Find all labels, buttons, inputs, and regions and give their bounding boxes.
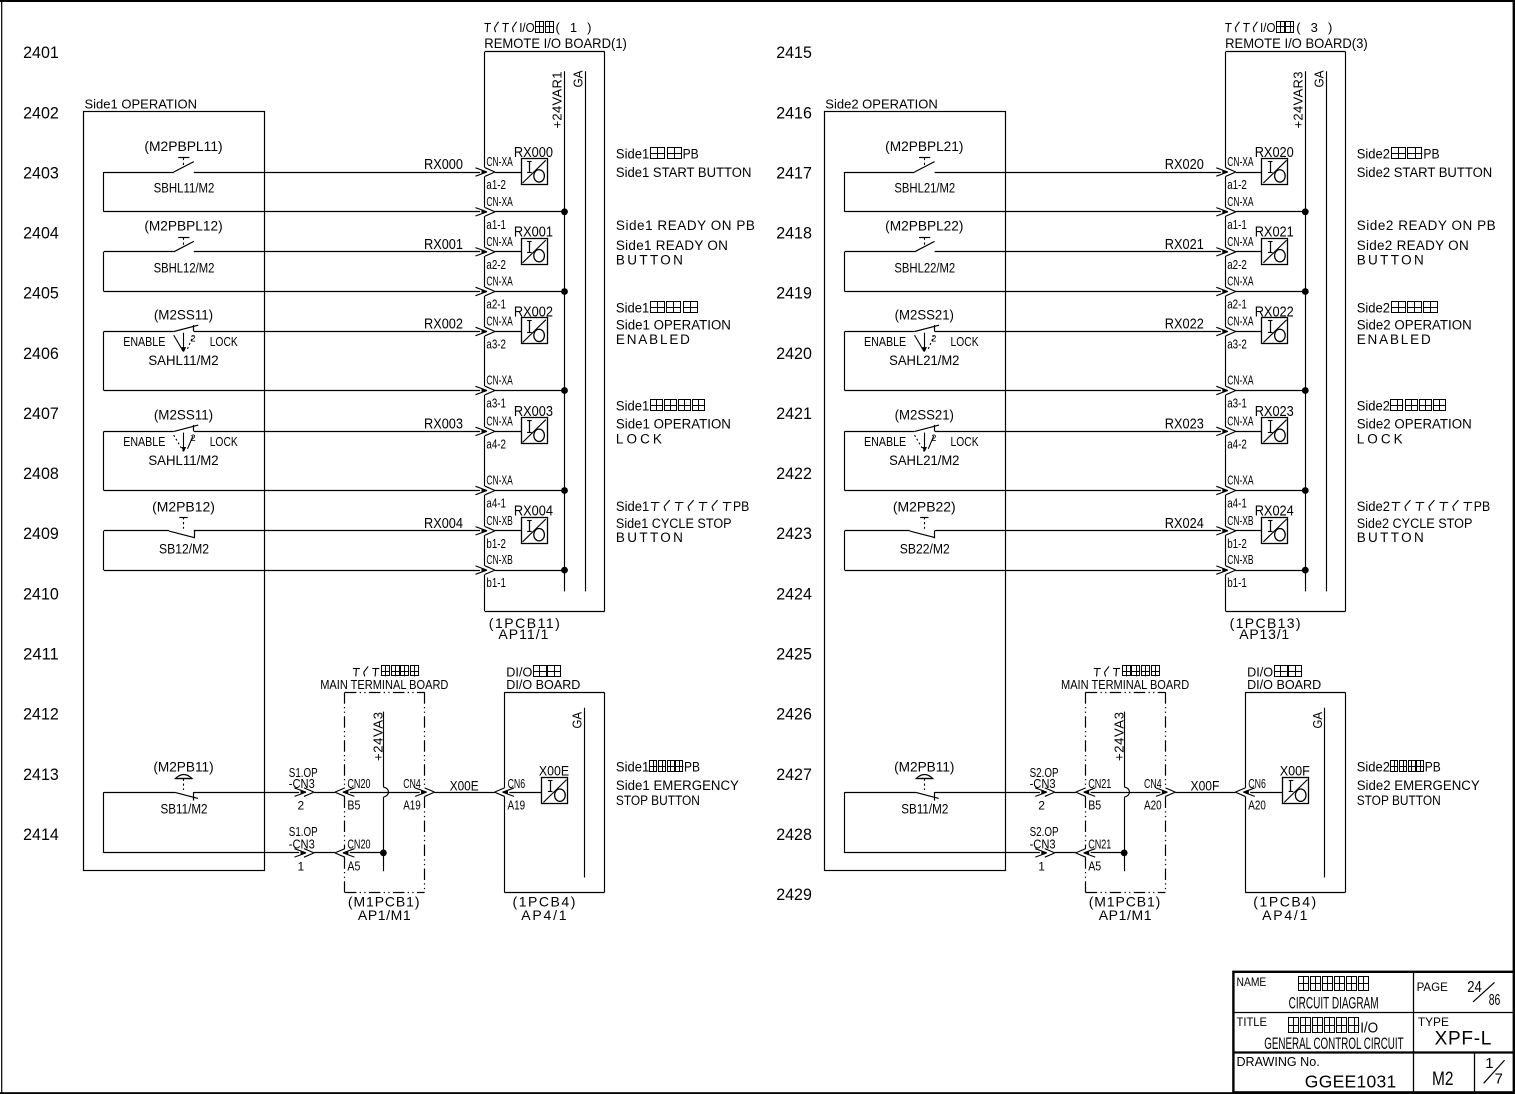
pins CN-XA a1-2 / a1-1 — [1227, 154, 1254, 232]
svg-text:CN-XA: CN-XA — [1227, 154, 1254, 169]
svg-text:+24VA3: +24VA3 — [1111, 712, 1126, 761]
svg-text:RX022: RX022 — [1165, 317, 1204, 333]
description RX022 — [1357, 301, 1472, 347]
net label RX002 — [424, 317, 463, 333]
svg-text:2415: 2415 — [776, 43, 812, 62]
+24VAR3 power bus — [1290, 71, 1305, 591]
svg-text:CIRCUIT DIAGRAM: CIRCUIT DIAGRAM — [1289, 993, 1379, 1012]
Side1 OPERATION box — [84, 97, 265, 871]
I/O input block RX022 — [1255, 304, 1294, 343]
svg-text:RX002: RX002 — [424, 317, 463, 333]
svg-text:a4-1: a4-1 — [486, 496, 506, 511]
svg-text:ENABLE: ENABLE — [864, 435, 906, 449]
GA bus — [571, 70, 586, 591]
junction on +24VA3 — [380, 850, 387, 857]
DI/O board outline — [505, 692, 605, 892]
line number column right (2415-2429) — [776, 43, 812, 904]
svg-text:CN-XA: CN-XA — [1227, 234, 1254, 249]
svg-text:(M2PB11): (M2PB11) — [153, 760, 213, 776]
svg-text:2406: 2406 — [23, 344, 59, 363]
svg-text:-CN3: -CN3 — [289, 837, 315, 852]
net label RX003 — [424, 417, 463, 433]
svg-text:LOCK: LOCK — [210, 435, 239, 449]
svg-text:CN-XA: CN-XA — [486, 154, 513, 169]
MAIN TERMINAL BOARD outline (dash-dot) — [345, 692, 425, 892]
svg-text:RX002: RX002 — [514, 304, 553, 320]
svg-text:RX000: RX000 — [514, 145, 553, 161]
svg-text:a2-1: a2-1 — [486, 297, 506, 312]
svg-text:Side2: Side2 — [1357, 399, 1390, 414]
GA bus — [1311, 70, 1326, 591]
svg-text:XPF-L: XPF-L — [1435, 1029, 1492, 1050]
svg-text:a1-1: a1-1 — [1227, 217, 1247, 232]
svg-text:1: 1 — [1038, 860, 1045, 874]
svg-text:a2-2: a2-2 — [486, 257, 506, 272]
svg-text:Side1 READY ON PB: Side1 READY ON PB — [616, 218, 755, 233]
svg-text:CN20: CN20 — [347, 776, 370, 791]
svg-text:PB: PB — [733, 499, 749, 514]
svg-text:A5: A5 — [1088, 859, 1101, 874]
DI/O board header — [506, 664, 580, 692]
board name (M1PCB1) — [348, 893, 420, 923]
svg-text:a2-1: a2-1 — [1227, 297, 1247, 312]
board name (1PCB4) — [513, 893, 576, 923]
remote I/O board (1PCB13) outline — [1226, 52, 1346, 612]
svg-text:CN-XA: CN-XA — [486, 234, 513, 249]
junction on +24VAR1 — [561, 288, 568, 295]
svg-text:(M2SS11): (M2SS11) — [154, 407, 213, 423]
svg-text:2405: 2405 — [23, 284, 59, 303]
svg-text:a3-2: a3-2 — [1227, 337, 1247, 352]
svg-text:b1-1: b1-1 — [1227, 575, 1247, 590]
wire RX023 return — [845, 431, 1306, 494]
svg-text:2417: 2417 — [776, 164, 812, 183]
svg-text:CN-XB: CN-XB — [486, 513, 512, 528]
net label RX001 — [424, 237, 463, 253]
svg-text:(M2SS21): (M2SS21) — [895, 308, 954, 324]
svg-text:RX023: RX023 — [1255, 404, 1294, 420]
svg-text:2: 2 — [1038, 799, 1045, 813]
title block frame — [1233, 972, 1515, 1093]
pins CN-XB b1-2 / b1-1 — [1227, 513, 1253, 590]
svg-text:STOP BUTTON: STOP BUTTON — [1357, 793, 1441, 808]
svg-text:CN4: CN4 — [403, 776, 421, 791]
svg-text:CN-XA: CN-XA — [486, 473, 513, 488]
svg-text:(1): (1) — [556, 20, 592, 35]
title M2 cell — [1432, 1069, 1454, 1090]
svg-text:RX001: RX001 — [514, 225, 553, 241]
svg-text:PB: PB — [1423, 146, 1439, 161]
MAIN TERMINAL BOARD outline (dash-dot) — [1086, 692, 1166, 892]
selector switch SAHL11/M2 (M2SS11) position 2 — [123, 407, 238, 469]
junction on +24VAR3 — [1302, 387, 1309, 394]
pins CN-XA a2-2 / a2-1 — [486, 234, 513, 312]
description RX021 — [1357, 218, 1496, 268]
wire RX023 signal — [845, 427, 1262, 436]
svg-text:a4-2: a4-2 — [486, 436, 506, 451]
net label RX021 — [1165, 237, 1204, 253]
pins CN-XA a1-2 / a1-1 — [486, 154, 513, 232]
svg-text:(M2PBPL22): (M2PBPL22) — [885, 219, 963, 235]
svg-text:RX004: RX004 — [514, 504, 553, 520]
svg-text:Side1: Side1 — [616, 499, 649, 514]
svg-text:TYPE: TYPE — [1418, 1015, 1449, 1029]
I/O input block RX023 — [1255, 404, 1294, 443]
svg-text:2429: 2429 — [776, 885, 812, 904]
net label RX020 — [1165, 157, 1204, 173]
svg-text:RX024: RX024 — [1255, 504, 1294, 520]
svg-text:b1-2: b1-2 — [486, 536, 506, 551]
wire X00E return — [104, 792, 384, 857]
pins CN21 B5/A5 — [1088, 776, 1111, 874]
svg-text:SB12/M2: SB12/M2 — [159, 541, 209, 557]
svg-text:Side1: Side1 — [616, 146, 649, 161]
svg-text:Side1: Side1 — [616, 301, 649, 316]
I/O input block RX003 — [514, 404, 553, 443]
svg-text:a4-1: a4-1 — [1227, 496, 1247, 511]
svg-text:2426: 2426 — [776, 705, 812, 724]
svg-text:Side1 EMERGENCY: Side1 EMERGENCY — [616, 778, 739, 793]
svg-text:Side2: Side2 — [1357, 146, 1390, 161]
pins CN-XA a3-2 / a3-1 — [1227, 314, 1254, 411]
svg-text:GA: GA — [1311, 70, 1326, 87]
svg-text:2408: 2408 — [23, 464, 59, 483]
svg-text:AP11/1: AP11/1 — [498, 626, 548, 642]
wire RX002 return — [104, 332, 565, 395]
svg-text:(M2PBPL12): (M2PBPL12) — [144, 219, 222, 235]
svg-text:AP13/1: AP13/1 — [1239, 626, 1289, 642]
svg-text:Side1 OPERATION: Side1 OPERATION — [85, 97, 197, 112]
svg-text:CN-XA: CN-XA — [1227, 413, 1254, 428]
svg-text:REMOTE I/O BOARD(1): REMOTE I/O BOARD(1) — [484, 35, 627, 51]
wire RX001 signal — [104, 248, 521, 257]
svg-text:Side2: Side2 — [1357, 499, 1390, 514]
svg-text:A19: A19 — [403, 798, 421, 813]
svg-text:I/O: I/O — [1260, 20, 1276, 35]
svg-text:PB: PB — [683, 146, 699, 161]
connector labels S1.OP -CN3 — [289, 765, 318, 874]
svg-text:DI/O BOARD: DI/O BOARD — [506, 677, 580, 692]
svg-text:ENABLE: ENABLE — [123, 335, 165, 349]
title PAGE cell — [1417, 979, 1501, 1009]
svg-text:PAGE: PAGE — [1417, 980, 1448, 994]
svg-text:RX020: RX020 — [1165, 157, 1204, 173]
svg-text:(M2PBPL21): (M2PBPL21) — [885, 139, 963, 155]
svg-text:Side2 READY ON: Side2 READY ON — [1357, 238, 1469, 253]
svg-text:-CN3: -CN3 — [1030, 776, 1056, 791]
svg-text:2416: 2416 — [776, 103, 812, 122]
net label RX024 — [1165, 516, 1204, 532]
svg-text:a2-2: a2-2 — [1227, 257, 1247, 272]
wire X00E signal — [104, 788, 542, 797]
svg-text:2418: 2418 — [776, 224, 812, 243]
svg-text:Side1 START BUTTON: Side1 START BUTTON — [616, 165, 752, 180]
I/O input block RX024 — [1255, 504, 1294, 544]
svg-text:MAIN TERMINAL BOARD: MAIN TERMINAL BOARD — [1061, 677, 1189, 692]
svg-text:A5: A5 — [347, 859, 360, 874]
svg-text:(M2PB22): (M2PB22) — [893, 499, 956, 515]
svg-text:(M2PB12): (M2PB12) — [152, 499, 215, 515]
svg-text:DRAWING No.: DRAWING No. — [1237, 1054, 1320, 1069]
svg-text:Side2 OPERATION: Side2 OPERATION — [1357, 416, 1472, 431]
svg-text:REMOTE I/O BOARD(3): REMOTE I/O BOARD(3) — [1225, 35, 1368, 51]
svg-text:2425: 2425 — [776, 645, 812, 664]
svg-text:Side2 START BUTTON: Side2 START BUTTON — [1357, 165, 1493, 180]
description RX004 — [616, 499, 749, 545]
svg-text:LOCK: LOCK — [951, 335, 980, 349]
I/O input block X00F — [1280, 763, 1310, 804]
wire X00F signal — [845, 788, 1283, 797]
svg-text:X00E: X00E — [539, 763, 569, 779]
svg-text:2421: 2421 — [776, 404, 812, 423]
I/O input block RX001 — [514, 225, 553, 265]
svg-text:RX024: RX024 — [1165, 516, 1204, 532]
push button SB22/M2 (M2PB22) NC contact cycle stop — [893, 499, 956, 557]
svg-text:A20: A20 — [1248, 798, 1266, 813]
svg-text:2422: 2422 — [776, 464, 812, 483]
svg-text:CN-XA: CN-XA — [1227, 194, 1254, 209]
svg-text:-CN3: -CN3 — [289, 776, 315, 791]
description RX001 — [616, 218, 755, 268]
svg-text:CN-XA: CN-XA — [486, 274, 513, 289]
svg-text:RX004: RX004 — [424, 516, 463, 532]
junction on +24VAR3 — [1302, 567, 1309, 574]
svg-text:ENABLED: ENABLED — [616, 332, 690, 347]
svg-text:TITLE: TITLE — [1237, 1015, 1268, 1029]
svg-text:2412: 2412 — [23, 705, 59, 724]
svg-text:I/O: I/O — [519, 20, 535, 35]
wire RX000 return — [104, 172, 565, 216]
svg-text:CN-XA: CN-XA — [486, 413, 513, 428]
svg-text:GGEE1031: GGEE1031 — [1305, 1071, 1396, 1091]
description RX024 — [1357, 499, 1490, 545]
svg-text:Side2 READY ON PB: Side2 READY ON PB — [1357, 218, 1496, 233]
svg-text:RX023: RX023 — [1165, 417, 1204, 433]
wire RX000 signal — [104, 168, 521, 177]
title sheet 1/7 cell — [1484, 1055, 1505, 1087]
svg-text:+24VA3: +24VA3 — [371, 712, 386, 761]
description X00F emergency stop — [1357, 760, 1480, 808]
svg-text:7: 7 — [1495, 1070, 1503, 1087]
pins CN4 A20 — [1144, 776, 1162, 812]
description RX023 — [1357, 399, 1472, 447]
description RX000 — [616, 146, 752, 180]
svg-text:LOCK: LOCK — [951, 435, 980, 449]
wire RX003 signal — [104, 427, 521, 436]
svg-text:2410: 2410 — [23, 584, 59, 603]
svg-text:2403: 2403 — [23, 164, 59, 183]
svg-text:2407: 2407 — [23, 404, 59, 423]
svg-text:X00F: X00F — [1191, 778, 1220, 794]
board header REMOTE I/O BOARD(3) — [1225, 20, 1368, 51]
svg-text:Side1: Side1 — [616, 760, 649, 775]
svg-text:2420: 2420 — [776, 344, 812, 363]
svg-text:AP4/1: AP4/1 — [1262, 907, 1308, 923]
svg-text:GA: GA — [1310, 712, 1325, 729]
svg-text:RX021: RX021 — [1255, 225, 1294, 241]
svg-text:CN-XA: CN-XA — [1227, 373, 1254, 388]
pins CN6 A20 — [1248, 776, 1266, 812]
svg-text:GA: GA — [571, 70, 586, 87]
svg-text:Side2: Side2 — [1357, 301, 1390, 316]
svg-text:Side1 OPERATION: Side1 OPERATION — [616, 416, 731, 431]
remote I/O board (1PCB11) outline — [485, 52, 605, 612]
description RX003 — [616, 399, 731, 447]
wire RX021 signal — [845, 248, 1262, 257]
GA bus DI/O — [1310, 708, 1325, 878]
svg-text:SB11/M2: SB11/M2 — [901, 802, 948, 818]
+24VA3 power bus — [1111, 712, 1129, 872]
svg-text:Side1 OPERATION: Side1 OPERATION — [616, 317, 731, 332]
svg-text:SB22/M2: SB22/M2 — [900, 541, 950, 557]
board name (1PCB13) — [1230, 615, 1301, 642]
junction on +24VAR3 — [1302, 208, 1309, 215]
description RX020 — [1357, 146, 1493, 180]
pins CN-XB b1-2 / b1-1 — [486, 513, 512, 590]
svg-text:+24VAR3: +24VAR3 — [1290, 72, 1305, 129]
svg-text:CN6: CN6 — [1248, 776, 1266, 791]
junction on +24VAR1 — [561, 387, 568, 394]
svg-text:LOCK: LOCK — [616, 431, 662, 446]
svg-text:GENERAL CONTROL CIRCUIT: GENERAL CONTROL CIRCUIT — [1264, 1034, 1403, 1053]
I/O input block X00E — [539, 763, 569, 804]
+24VA3 power bus — [371, 712, 389, 872]
svg-text:Side1 READY ON: Side1 READY ON — [616, 238, 728, 253]
svg-text:1: 1 — [1485, 1055, 1493, 1072]
title DRAWING No cell — [1237, 1054, 1397, 1092]
svg-text:PB: PB — [684, 760, 700, 775]
svg-text:SBHL21/M2: SBHL21/M2 — [894, 181, 955, 197]
svg-text:2: 2 — [298, 799, 305, 813]
svg-text:M2: M2 — [1432, 1069, 1454, 1090]
pins CN-XA a3-2 / a3-1 — [486, 314, 513, 411]
svg-text:2419: 2419 — [776, 284, 812, 303]
svg-text:AP1/M1: AP1/M1 — [358, 907, 411, 923]
svg-text:RX022: RX022 — [1255, 304, 1294, 320]
svg-text:DI/O BOARD: DI/O BOARD — [1247, 677, 1321, 692]
svg-text:SBHL22/M2: SBHL22/M2 — [894, 260, 955, 276]
svg-text:STOP BUTTON: STOP BUTTON — [616, 793, 700, 808]
net label RX004 — [424, 516, 463, 532]
wire RX024 signal — [845, 527, 1262, 536]
svg-text:GA: GA — [569, 712, 584, 729]
svg-text:2401: 2401 — [23, 43, 59, 62]
board name (1PCB11) — [489, 615, 560, 642]
push button SB11/M2 (M2PB11) NC contact emergency stop — [153, 760, 213, 818]
svg-text:LOCK: LOCK — [210, 335, 239, 349]
net label RX000 — [424, 157, 463, 173]
net label X00E — [450, 778, 479, 794]
svg-text:CN20: CN20 — [347, 837, 370, 852]
svg-text:a1-2: a1-2 — [1227, 177, 1247, 192]
svg-text:AP1/M1: AP1/M1 — [1099, 907, 1152, 923]
Side2 OPERATION box — [825, 97, 1006, 871]
svg-text:2: 2 — [191, 333, 196, 343]
junction on +24VAR3 — [1302, 288, 1309, 295]
svg-text:(M2PB11): (M2PB11) — [894, 760, 954, 776]
title TITLE cell — [1237, 1015, 1404, 1053]
svg-text:CN-XA: CN-XA — [1227, 473, 1254, 488]
svg-text:NAME: NAME — [1237, 975, 1267, 989]
svg-text:Side2 OPERATION: Side2 OPERATION — [825, 97, 937, 112]
svg-text:SBHL12/M2: SBHL12/M2 — [154, 260, 215, 276]
push button SBHL11/M2 (M2PBPL11) NO contact — [144, 139, 222, 197]
svg-text:CN21: CN21 — [1088, 837, 1111, 852]
svg-text:CN21: CN21 — [1088, 776, 1111, 791]
svg-text:A19: A19 — [508, 798, 526, 813]
svg-text:(M2PBPL11): (M2PBPL11) — [144, 139, 222, 155]
svg-text:B5: B5 — [347, 798, 360, 813]
svg-text:Side2 OPERATION: Side2 OPERATION — [1357, 317, 1472, 332]
svg-text:2414: 2414 — [23, 825, 59, 844]
junction on +24VAR1 — [561, 208, 568, 215]
svg-text:2427: 2427 — [776, 765, 812, 784]
junction on +24VAR3 — [1302, 487, 1309, 494]
svg-text:2: 2 — [931, 333, 936, 343]
wire RX003 return — [104, 431, 565, 494]
svg-text:LOCK: LOCK — [1357, 431, 1403, 446]
push button SBHL22/M2 (M2PBPL22) NO contact — [885, 219, 963, 277]
svg-text:BUTTON: BUTTON — [1357, 530, 1424, 545]
svg-text:Side2 EMERGENCY: Side2 EMERGENCY — [1357, 778, 1480, 793]
svg-text:SB11/M2: SB11/M2 — [161, 802, 208, 818]
title NAME cell — [1237, 975, 1379, 1012]
wire RX001 return — [104, 252, 565, 296]
net label RX023 — [1165, 417, 1204, 433]
svg-text:AP4/1: AP4/1 — [521, 907, 567, 923]
pins CN4 A19 — [403, 776, 421, 812]
board name (1PCB4) — [1253, 893, 1316, 923]
svg-text:a3-1: a3-1 — [1227, 396, 1247, 411]
svg-text:(M2SS11): (M2SS11) — [154, 308, 213, 324]
push button SB12/M2 (M2PB12) NC contact cycle stop — [152, 499, 215, 557]
description RX002 — [616, 301, 731, 347]
svg-text:2423: 2423 — [776, 524, 812, 543]
svg-text:RX020: RX020 — [1255, 145, 1294, 161]
svg-text:PB: PB — [1425, 760, 1441, 775]
svg-text:2402: 2402 — [23, 103, 59, 122]
svg-text:ENABLE: ENABLE — [123, 435, 165, 449]
svg-text:2: 2 — [931, 433, 936, 443]
board header REMOTE I/O BOARD(1) — [484, 20, 627, 51]
net label RX022 — [1165, 317, 1204, 333]
wire RX004 signal — [104, 527, 521, 536]
svg-text:a3-2: a3-2 — [486, 337, 506, 352]
svg-text:CN-XA: CN-XA — [486, 373, 513, 388]
I/O input block RX021 — [1255, 225, 1294, 265]
junction on +24VA3 — [1121, 850, 1128, 857]
junction on +24VAR1 — [561, 567, 568, 574]
wire RX021 return — [845, 252, 1306, 296]
svg-text:a3-1: a3-1 — [486, 396, 506, 411]
svg-text:CN-XA: CN-XA — [1227, 274, 1254, 289]
svg-text:(3): (3) — [1296, 20, 1332, 35]
svg-text:X00E: X00E — [450, 778, 479, 794]
pins CN-XA a2-2 / a2-1 — [1227, 234, 1254, 312]
pins CN20 B5/A5 — [347, 776, 370, 874]
svg-text:2411: 2411 — [23, 645, 59, 664]
svg-text:RX003: RX003 — [424, 417, 463, 433]
svg-text:SBHL11/M2: SBHL11/M2 — [154, 181, 215, 197]
svg-text:ENABLED: ENABLED — [1357, 332, 1431, 347]
wire RX004 return — [104, 531, 565, 575]
svg-text:CN-XA: CN-XA — [1227, 314, 1254, 329]
svg-text:2428: 2428 — [776, 825, 812, 844]
board name (M1PCB1) — [1089, 893, 1161, 923]
selector switch SAHL11/M2 (M2SS11) position 1 — [123, 308, 238, 370]
I/O input block RX002 — [514, 304, 553, 343]
description X00E emergency stop — [616, 760, 739, 808]
